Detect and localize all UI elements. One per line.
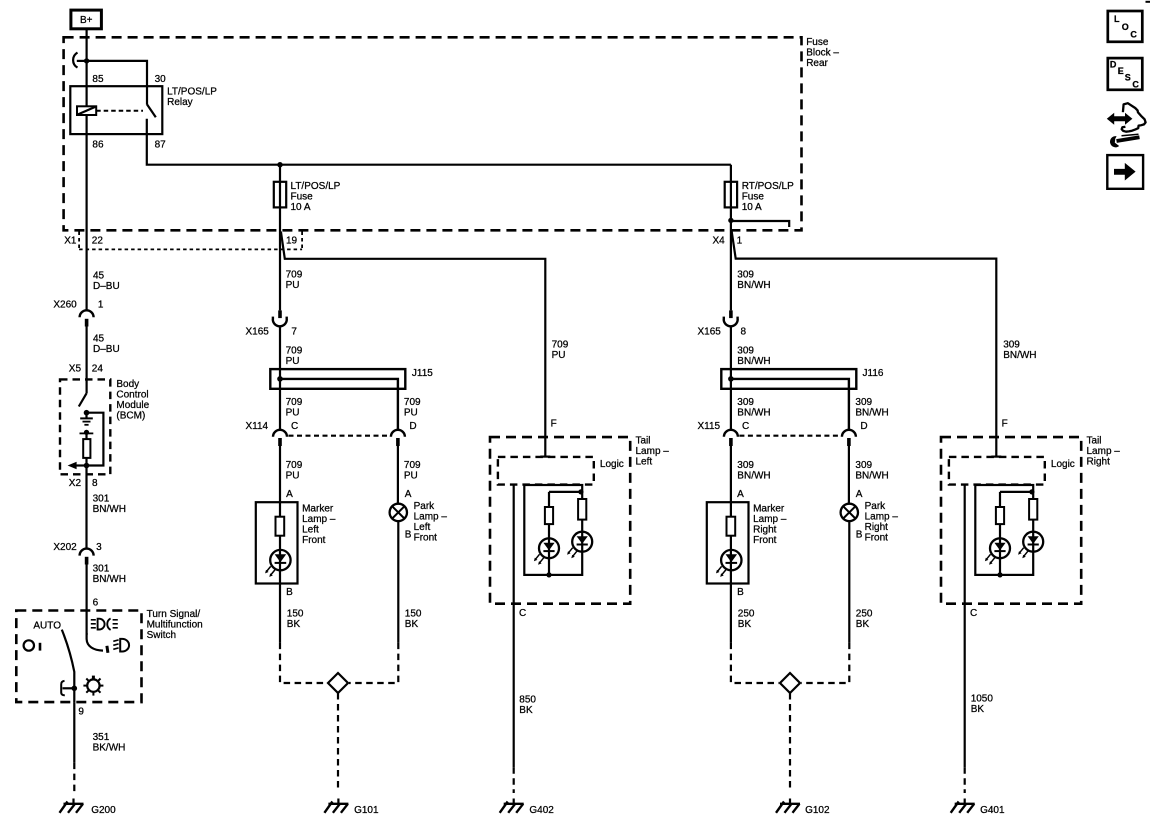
svg-text:1: 1 xyxy=(98,299,104,310)
svg-text:C: C xyxy=(291,421,298,432)
wire BCM to X202 pin 3 xyxy=(85,466,87,550)
svg-text:Logic: Logic xyxy=(600,459,624,470)
LED marker lamp left xyxy=(265,550,290,577)
relay coil to contact dashed link xyxy=(96,110,143,112)
wire logic to pin C left xyxy=(513,485,515,768)
node LED bar junction dot left xyxy=(578,489,583,494)
logic module dashed box left xyxy=(498,457,594,485)
svg-text:1: 1 xyxy=(737,236,743,247)
connector X114 pin D xyxy=(391,430,405,446)
tail lamp right LED array box xyxy=(975,485,1033,575)
icon LOC box xyxy=(1108,11,1143,42)
svg-text:F: F xyxy=(1002,419,1008,430)
svg-text:G102: G102 xyxy=(805,805,830,816)
relay switch blade xyxy=(147,104,156,117)
connector X260 pin 1 xyxy=(80,310,94,326)
splice diamond right xyxy=(780,673,800,693)
wire marker right to splice xyxy=(730,584,732,643)
connector X165 pin 8 xyxy=(724,310,738,326)
svg-text:B: B xyxy=(286,587,293,598)
tail lamp right dashed box xyxy=(941,437,1081,604)
svg-text:X202: X202 xyxy=(53,542,77,553)
svg-text:X114: X114 xyxy=(246,421,269,432)
svg-text:X260: X260 xyxy=(53,299,77,310)
wire branch X4-1 to right tail lamp F xyxy=(732,232,997,457)
fuse block internal stub right of RT fuse xyxy=(731,221,789,227)
svg-text:AUTO: AUTO xyxy=(33,621,61,632)
ground G200 xyxy=(60,799,84,813)
svg-text:87: 87 xyxy=(155,139,167,150)
svg-text:B: B xyxy=(405,530,412,541)
svg-text:O: O xyxy=(1122,22,1129,32)
resistor BCM internal xyxy=(83,439,90,458)
svg-text:G401: G401 xyxy=(980,805,1005,816)
connector X115 pin D xyxy=(842,430,856,446)
wire F terminal tick left xyxy=(540,456,550,458)
svg-text:D: D xyxy=(860,421,867,432)
svg-text:C: C xyxy=(742,421,749,432)
wire X115 D to park lamp right xyxy=(848,446,850,504)
tail lamp left dashed box xyxy=(490,437,630,604)
wire dashed diamond to G102 xyxy=(789,693,791,792)
wire resistor to bottom node xyxy=(85,458,87,466)
svg-text:B+: B+ xyxy=(80,15,93,26)
wire node to relay pin 30 xyxy=(87,61,147,105)
wire X115 C to marker lamp right xyxy=(730,446,732,502)
turn signal multifunction switch dashed box xyxy=(16,611,141,703)
LED tail left outer xyxy=(567,532,592,559)
relay LT/POS/LP box xyxy=(70,86,162,134)
node J115 junction dot xyxy=(277,376,283,382)
wire J115 bus to X114 pin D xyxy=(280,379,398,430)
ground G402 xyxy=(500,799,524,813)
node J116 junction dot xyxy=(728,376,734,382)
wire X114 C to marker lamp xyxy=(279,446,281,502)
wire dashed to G401 xyxy=(964,767,966,793)
svg-text:8: 8 xyxy=(741,326,747,337)
svg-text:85: 85 xyxy=(92,74,104,85)
wire relay pin 87 to fuse rail xyxy=(147,119,731,165)
svg-text:G101: G101 xyxy=(354,805,379,816)
resistor marker lamp left xyxy=(276,517,285,536)
node BCM resistor top tap xyxy=(80,430,94,439)
wire rail down through LT fuse to X165 pin 7 xyxy=(279,165,281,311)
svg-text:E: E xyxy=(1118,66,1124,76)
node LED bar junction dot right xyxy=(1029,489,1034,494)
LED marker lamp right xyxy=(716,550,742,577)
wire LED array bar right xyxy=(1000,491,1033,493)
svg-text:X1: X1 xyxy=(64,236,77,247)
svg-text:C: C xyxy=(1132,80,1139,90)
connector X1 dotted boundary xyxy=(79,232,302,250)
node switch output junction dot xyxy=(72,686,78,692)
ground G401 xyxy=(951,799,975,813)
BCM output arrow xyxy=(68,462,87,470)
svg-text:86: 86 xyxy=(92,139,104,150)
wire inner LED branch left xyxy=(548,492,550,575)
BCM internal loop wire xyxy=(87,413,104,466)
wire logic to pin C right xyxy=(964,485,966,768)
wire through marker lamp right xyxy=(730,502,732,583)
wire dashed marker to diamond splice xyxy=(280,643,327,683)
svg-text:F: F xyxy=(551,419,557,430)
svg-text:A: A xyxy=(737,489,744,500)
BCM internal ground symbol xyxy=(80,413,93,425)
splice diamond left xyxy=(328,673,348,693)
wire dashed to G200 xyxy=(73,763,75,796)
resistor tail left outer xyxy=(578,499,586,520)
icon DESC box xyxy=(1108,58,1143,90)
svg-text:A: A xyxy=(405,489,412,500)
svg-text:9: 9 xyxy=(78,706,84,717)
wire X260 to BCM switch xyxy=(85,327,87,394)
node B+ junction dot xyxy=(84,58,89,63)
svg-text:D: D xyxy=(1110,60,1117,70)
relay coil xyxy=(77,106,96,115)
svg-text:X115: X115 xyxy=(698,421,721,432)
fuse RT/POS/LP 10A xyxy=(725,182,737,208)
wire X165 to J116 xyxy=(730,326,732,429)
connector stub arc at B+ node xyxy=(73,53,86,68)
svg-text:J116: J116 xyxy=(863,368,884,379)
node LED array bottom dot left xyxy=(546,572,551,577)
connector X114 dashed link xyxy=(289,435,390,437)
connector X114 pin C xyxy=(273,430,287,446)
fuse LT/POS/LP 10A xyxy=(274,182,286,208)
park lamp left front bulb xyxy=(390,504,407,521)
logic module dashed box right xyxy=(949,457,1045,485)
wire X165 to J115 xyxy=(279,326,281,429)
LED tail right outer xyxy=(1018,532,1043,559)
svg-text:24: 24 xyxy=(92,363,104,374)
svg-text:8: 8 xyxy=(92,478,98,489)
svg-text:X4: X4 xyxy=(713,236,726,247)
fuse block rear dashed enclosure xyxy=(64,37,802,230)
svg-text:C: C xyxy=(1130,29,1137,39)
svg-text:6: 6 xyxy=(93,598,99,609)
wire switch to ground G200 solid part xyxy=(73,702,75,763)
svg-text:19: 19 xyxy=(286,236,298,247)
BCM internal switch blade xyxy=(79,393,87,406)
svg-text:Logic: Logic xyxy=(1051,459,1075,470)
switch output contact xyxy=(61,681,74,695)
wire inner LED branch right xyxy=(999,492,1001,575)
svg-text:B: B xyxy=(856,530,863,541)
node below RT fuse junction dot xyxy=(728,218,733,223)
resistor marker lamp right xyxy=(727,517,736,536)
switch wiper curve to headlamp position xyxy=(87,633,108,653)
wire dashed to G402 xyxy=(513,767,515,793)
svg-text:A: A xyxy=(856,489,863,500)
svg-text:S: S xyxy=(1125,72,1131,82)
icon off position circle xyxy=(24,640,40,650)
node LED array bottom dot right xyxy=(997,572,1002,577)
svg-text:G402: G402 xyxy=(529,805,554,816)
wire dashed marker right to diamond splice xyxy=(731,643,779,683)
marker lamp right front box xyxy=(707,502,749,583)
resistor tail right inner xyxy=(996,507,1004,524)
splice pack J115 box xyxy=(270,369,405,389)
wire LED array bar left xyxy=(549,491,582,493)
wire X202 to turn signal switch pin 6 xyxy=(85,565,87,635)
svg-text:X165: X165 xyxy=(246,326,270,337)
svg-text:L: L xyxy=(1114,14,1120,24)
icon parking lamps symbol xyxy=(83,676,103,696)
wire park left to splice xyxy=(397,521,399,643)
node BCM driver top junction dot xyxy=(84,410,90,416)
LED tail right inner xyxy=(985,538,1010,565)
icon service info arrows and wrench xyxy=(1107,103,1146,147)
wire dashed park to diamond splice xyxy=(349,643,398,683)
body control module BCM dashed box xyxy=(60,379,110,474)
connector X115 dashed link xyxy=(739,435,840,437)
svg-text:X2: X2 xyxy=(69,478,82,489)
resistor tail right outer xyxy=(1029,499,1037,520)
icon headlamps symbol xyxy=(91,618,118,630)
switch blade AUTO to output xyxy=(62,630,75,703)
wire dashed diamond to G101 xyxy=(337,693,339,792)
wire F terminal tick right xyxy=(991,456,1001,458)
ground G102 xyxy=(776,799,800,813)
wire through marker lamp left xyxy=(279,502,281,583)
svg-text:A: A xyxy=(286,489,293,500)
icon forward arrow box xyxy=(1107,155,1143,189)
svg-text:3: 3 xyxy=(96,542,102,553)
connector X115 pin C xyxy=(724,430,738,446)
svg-text:J115: J115 xyxy=(412,368,433,379)
marker lamp left front box xyxy=(256,502,298,583)
svg-text:G200: G200 xyxy=(91,805,116,816)
svg-text:B: B xyxy=(737,587,744,598)
node BCM driver bottom junction dot xyxy=(84,463,90,469)
page corner mark xyxy=(1146,1,1151,3)
wire rail down through RT fuse to X165 pin 8 xyxy=(730,165,732,311)
wire branch X1-19 to left tail lamp F xyxy=(281,232,545,457)
svg-text:22: 22 xyxy=(92,236,104,247)
resistor tail left inner xyxy=(545,507,553,524)
connector X165 pin 7 xyxy=(273,310,287,326)
wire B+ to relay coil pin 85 and down to X1 pin 22 xyxy=(85,29,87,310)
icon low beam lamp symbol xyxy=(113,639,129,652)
wire park right to splice xyxy=(848,521,850,643)
svg-text:7: 7 xyxy=(291,326,297,337)
wire X114 D to park lamp xyxy=(397,446,399,504)
connector X202 pin 3 xyxy=(80,549,94,565)
wire marker left to splice xyxy=(279,584,281,643)
svg-text:X5: X5 xyxy=(69,363,82,374)
LED tail left inner xyxy=(534,538,559,565)
ground G101 xyxy=(324,799,348,813)
park lamp right front bulb xyxy=(841,504,858,521)
svg-text:C: C xyxy=(519,608,526,619)
svg-text:X165: X165 xyxy=(698,326,722,337)
svg-text:30: 30 xyxy=(155,74,167,85)
battery feed B+ terminal xyxy=(71,10,102,29)
tail lamp left LED array box xyxy=(524,485,582,575)
node fuse rail junction dot xyxy=(277,162,282,167)
splice pack J116 box xyxy=(721,369,856,389)
svg-text:C: C xyxy=(970,608,977,619)
svg-text:D: D xyxy=(409,421,416,432)
wire dashed park right to diamond splice xyxy=(801,643,849,683)
wire J116 bus to X115 pin D xyxy=(731,379,849,430)
